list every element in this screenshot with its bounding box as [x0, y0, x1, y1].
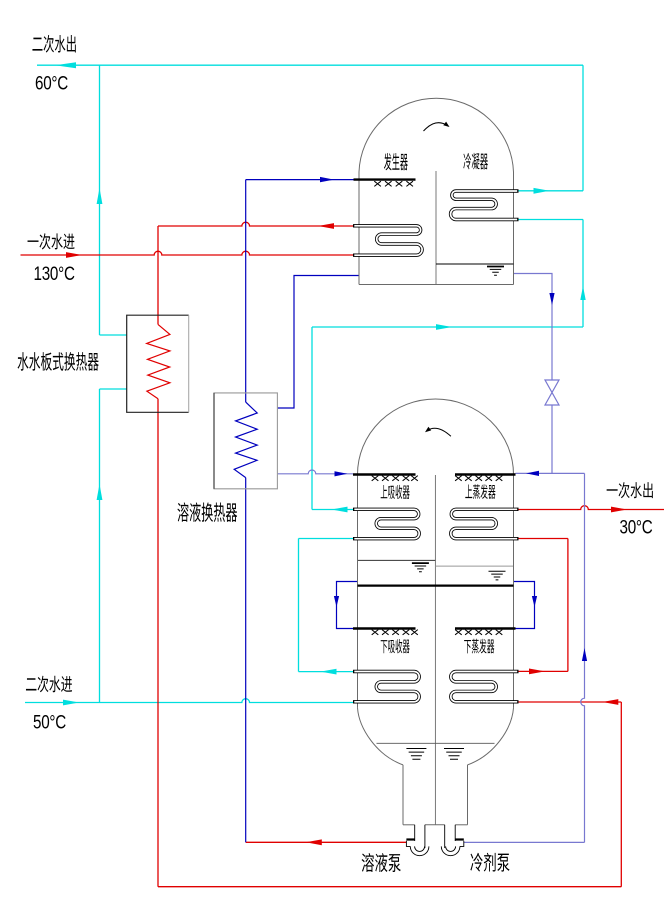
pipe: red riser to lower evaporator inlet: [519, 699, 622, 887]
label: condenser: [463, 153, 488, 170]
label: upper absorber: [381, 485, 410, 499]
sump level hatching left: [406, 749, 426, 760]
label: lower evaporator: [464, 639, 494, 654]
upper absorber spray tray: [353, 473, 416, 475]
top vessel shell: [359, 98, 514, 284]
pipe: cyan upper absorber outlet stub: [312, 507, 353, 513]
upper evaporator pan line: [435, 565, 513, 567]
lower vessel bowl: [358, 708, 514, 765]
label: solution heat exchanger: [177, 502, 237, 522]
pipe: dilute solution riser (dark blue) pump to solution HX: [245, 478, 247, 843]
pipe: cyan riser from condenser top to header: [519, 65, 584, 194]
label: primary water out: [607, 482, 653, 498]
top vessel rotation arrow: [424, 122, 450, 131]
upper absorber spray x-marks: [372, 476, 418, 481]
pipe: secondary water outlet header 60C (cyan): [37, 62, 583, 68]
solution pump nozzle: [415, 825, 425, 848]
lower evaporator spray tray: [455, 627, 516, 629]
stage separation plate: [358, 584, 514, 586]
pipe: condensate from valve to evaporator spray (pale blue): [516, 405, 585, 476]
label: secondary water in: [26, 676, 72, 693]
lower evaporator spray x-marks: [455, 630, 502, 635]
solution heat exchanger box: [214, 393, 277, 489]
pipe: generator coil outlet return (red): [158, 222, 353, 324]
label: plate heat exchanger: [18, 352, 99, 371]
expansion valve: [545, 380, 559, 405]
generator spray tray: [354, 178, 416, 180]
solution HX blue zigzag: [234, 402, 257, 478]
generator coil: [353, 226, 422, 255]
label: refrigerant pump: [470, 853, 509, 872]
upper absorber pan line: [358, 559, 435, 561]
label: primary water in: [28, 233, 75, 249]
pipe: primary hot water inlet 130C (red): [21, 251, 354, 258]
upper evaporator pan level symbol: [489, 571, 506, 580]
label: generator: [384, 153, 408, 170]
pipe: internal transfer right (dark blue): [514, 582, 538, 629]
svg-text:60°C: 60°C: [35, 72, 68, 94]
refrigerant pump nozzle: [445, 825, 456, 848]
upper evaporator coil: [451, 509, 519, 538]
pipe: cyan riser x=99.5 to header via plate HX: [97, 65, 127, 335]
pipe: red drop from plate HX to bottom header: [158, 399, 621, 887]
pipe: secondary water inlet 50C (cyan): [25, 699, 353, 706]
lower absorber spray tray: [353, 627, 416, 629]
solution pump: [406, 840, 429, 856]
condensate pan level symbol: [487, 266, 504, 268]
condensate pan surface: [436, 263, 514, 265]
pipe: condensate line from condenser to expansion valve (pale blue): [514, 274, 555, 381]
pipe: red lower evap outlet to upper evap inlet: [519, 539, 568, 675]
pipe: plate HX cold outlet leg: [97, 389, 127, 703]
sump level hatching right: [444, 749, 464, 760]
pipe: refrigerant pump riser (pale blue): [464, 473, 587, 842]
pipe: primary water outlet 30C (red): [519, 506, 664, 513]
lower absorber coil: [353, 672, 419, 702]
pipe: strong solution from generator to solution HX (dark blue): [277, 276, 359, 409]
vessel neck: [403, 765, 468, 825]
pipe: solution pump discharge (red): [246, 839, 407, 845]
upper absorber coil: [353, 509, 419, 538]
upper evaporator spray tray: [455, 473, 516, 475]
pipe: strong solution to upper absorber spray (pale blue): [277, 470, 353, 476]
svg-text:50°C: 50°C: [33, 711, 66, 733]
pipe: dilute solution to generator spray (dark blue): [246, 177, 354, 402]
refrigerant pump: [441, 840, 464, 856]
lower vessel internal divider: [434, 475, 436, 825]
upper absorber pan level symbol: [412, 562, 429, 564]
svg-text:130°C: 130°C: [34, 262, 75, 284]
lower vessel dome: [358, 399, 514, 475]
plate heat exchanger box: [127, 315, 189, 412]
plate HX red zigzag: [147, 324, 170, 398]
lower vessel rotation arrow: [425, 427, 451, 437]
pipe: cyan condenser inlet riser from absorber outlet: [519, 220, 586, 328]
label: upper evaporator: [465, 484, 495, 499]
upper evaporator spray x-marks: [455, 476, 502, 481]
svg-text:30°C: 30°C: [620, 516, 653, 538]
label: solution pump: [362, 853, 401, 872]
pipe: cyan lower absorber outlet to upper absorber inlet riser: [299, 539, 354, 675]
label: secondary water out: [32, 35, 75, 53]
lower absorber spray x-marks: [372, 630, 418, 635]
lower evaporator coil: [451, 672, 519, 702]
sump liquid surface: [377, 742, 495, 744]
label: lower absorber: [381, 639, 410, 653]
top vessel internal divider: [435, 171, 437, 285]
pipe: cyan cross line y=327 from absorber riser to condenser riser: [312, 324, 583, 509]
lower vessel walls: [358, 475, 514, 708]
condenser coil: [451, 191, 519, 220]
pipe: internal transfer left (dark blue): [334, 582, 358, 629]
generator spray x-marks: [374, 181, 413, 186]
